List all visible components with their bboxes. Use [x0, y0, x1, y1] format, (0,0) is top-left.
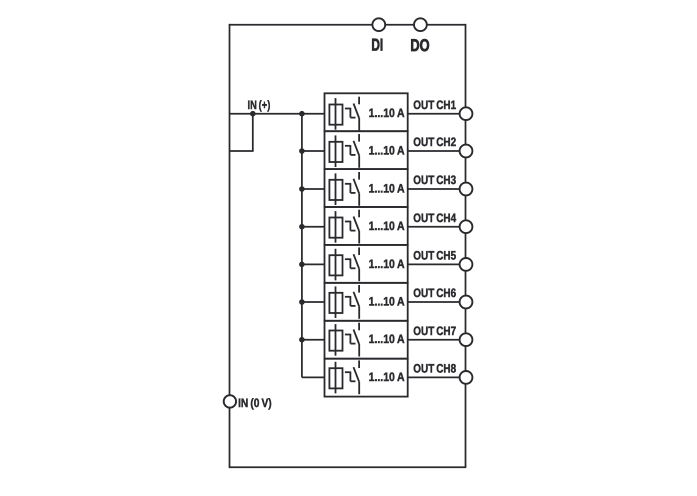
svg-text:1...10 A: 1...10 A — [369, 332, 405, 346]
breaker contact (switch with trip actuator), channel 4 — [345, 210, 359, 244]
node: IN (+) terminal label — [248, 98, 271, 112]
svg-text:IN (+): IN (+) — [248, 98, 271, 112]
node label OUT CH1 — [413, 98, 456, 112]
terminal OUT CH5 — [460, 258, 473, 271]
electronic circuit breaker channel 4 (box outline) — [325, 207, 408, 245]
wire: outer supply frame (bottom rail) — [229, 466, 467, 468]
terminal OUT CH7 — [460, 333, 473, 346]
wire: channel 1 output to OUT CH1 terminal — [408, 113, 466, 115]
node label DI — [371, 36, 383, 55]
junction: IN (+) strap node — [250, 111, 256, 117]
wire: parallel feed strap (horizontal back to left rail) — [230, 150, 254, 152]
terminal OUT CH4 — [460, 220, 473, 233]
node label OUT CH2 — [413, 135, 456, 149]
junction: bus node CH7 — [299, 337, 305, 343]
wire: channel 8 output to OUT CH8 terminal — [408, 376, 466, 378]
fuse symbol, channel 3 — [329, 173, 342, 205]
electronic circuit breaker channel 5 (box outline) — [325, 245, 408, 283]
node label IN (0 V) — [238, 396, 272, 410]
junction: bus node CH5 — [299, 262, 305, 268]
electronic circuit breaker channel 2 (box outline) — [325, 131, 408, 169]
svg-text:1...10 A: 1...10 A — [369, 257, 405, 271]
node label OUT CH8 — [413, 362, 456, 376]
wire: channel 2 output to OUT CH2 terminal — [408, 150, 466, 152]
wire: channel 6 output to OUT CH6 terminal — [408, 301, 466, 303]
svg-text:OUT CH7: OUT CH7 — [413, 324, 456, 338]
wire: parallel feed strap (vertical drop from IN (+) node) — [252, 114, 254, 151]
junction: bus node CH2 — [299, 148, 305, 154]
svg-text:IN (0 V): IN (0 V) — [238, 396, 272, 410]
breaker contact (switch with trip actuator), channel 5 — [345, 247, 359, 281]
value label 1...10 A, channel 2 — [369, 143, 405, 157]
fuse symbol, channel 2 — [329, 135, 342, 167]
svg-text:DI: DI — [371, 36, 383, 55]
wire: outer supply frame (right rail) — [465, 24, 467, 467]
wire: bus to channel 5 input — [302, 263, 325, 265]
fuse symbol, channel 7 — [329, 324, 342, 356]
wire: channel 7 output to OUT CH7 terminal — [408, 339, 466, 341]
terminal DI (diagnostic input) — [372, 18, 385, 31]
fuse symbol, channel 1 — [329, 98, 342, 130]
value label 1...10 A, channel 3 — [369, 181, 405, 195]
terminal DO (diagnostic output) — [414, 18, 427, 31]
svg-text:1...10 A: 1...10 A — [369, 181, 405, 195]
svg-text:OUT CH5: OUT CH5 — [413, 249, 456, 263]
fuse symbol, channel 4 — [329, 211, 342, 243]
wire: outer supply frame (top rail) — [230, 24, 466, 26]
breaker contact (switch with trip actuator), channel 2 — [345, 134, 359, 168]
svg-text:OUT CH2: OUT CH2 — [413, 135, 456, 149]
terminal OUT CH8 — [460, 371, 473, 384]
breaker contact (switch with trip actuator), channel 8 — [345, 360, 359, 394]
terminal OUT CH3 — [460, 183, 473, 196]
wire: IN (+) feed from left rail to channel bus — [230, 113, 325, 115]
node label OUT CH5 — [413, 249, 456, 263]
breaker contact (switch with trip actuator), channel 7 — [345, 323, 359, 357]
wire: bus to channel 3 input — [302, 188, 325, 190]
node label DO — [410, 36, 429, 55]
svg-text:OUT CH1: OUT CH1 — [413, 98, 456, 112]
value label 1...10 A, channel 6 — [369, 294, 405, 308]
junction: bus node CH3 — [299, 186, 305, 192]
svg-text:1...10 A: 1...10 A — [369, 106, 405, 120]
svg-text:1...10 A: 1...10 A — [369, 370, 405, 384]
terminal OUT CH6 — [460, 296, 473, 309]
svg-text:1...10 A: 1...10 A — [369, 219, 405, 233]
wire: channel 4 output to OUT CH4 terminal — [408, 226, 466, 228]
value label 1...10 A, channel 7 — [369, 332, 405, 346]
fuse symbol, channel 8 — [329, 362, 342, 394]
value label 1...10 A, channel 8 — [369, 370, 405, 384]
value label 1...10 A, channel 4 — [369, 219, 405, 233]
junction: bus node CH4 — [299, 224, 305, 230]
value label 1...10 A, channel 1 — [369, 106, 405, 120]
svg-text:OUT CH8: OUT CH8 — [413, 362, 456, 376]
terminal OUT CH2 — [460, 145, 473, 158]
breaker contact (switch with trip actuator), channel 6 — [345, 285, 359, 319]
terminal IN (0V) — [224, 395, 236, 407]
wire: bus to channel 8 input — [302, 376, 325, 378]
wire: bus to channel 7 input — [302, 339, 325, 341]
value label 1...10 A, channel 5 — [369, 257, 405, 271]
wire: bus to channel 4 input — [302, 226, 325, 228]
node label OUT CH6 — [413, 286, 456, 300]
svg-text:OUT CH4: OUT CH4 — [413, 211, 456, 225]
wire: bus to channel 6 input — [302, 301, 325, 303]
breaker contact (switch with trip actuator), channel 3 — [345, 172, 359, 206]
electronic circuit breaker channel 3 (box outline) — [325, 169, 408, 207]
fuse symbol, channel 6 — [329, 286, 342, 318]
wire: bus to channel 2 input — [302, 150, 325, 152]
svg-text:1...10 A: 1...10 A — [369, 294, 405, 308]
electronic circuit breaker channel 8 (box outline) — [325, 359, 408, 397]
wire: channel 3 output to OUT CH3 terminal — [408, 188, 466, 190]
node label OUT CH7 — [413, 324, 456, 338]
junction: bus node CH1 — [299, 111, 305, 117]
electronic circuit breaker channel 6 (box outline) — [325, 283, 408, 321]
electronic circuit breaker channel 7 (box outline) — [325, 321, 408, 359]
wire: channel 5 output to OUT CH5 terminal — [408, 263, 466, 265]
fuse symbol, channel 5 — [329, 249, 342, 281]
svg-text:1...10 A: 1...10 A — [369, 143, 405, 157]
electronic circuit breaker channel 1 (box outline) — [325, 93, 408, 131]
svg-text:OUT CH6: OUT CH6 — [413, 286, 456, 300]
wire: outer supply frame (left rail, 0V return) — [229, 24, 231, 467]
svg-text:OUT CH3: OUT CH3 — [413, 173, 456, 187]
node label OUT CH4 — [413, 211, 456, 225]
breaker contact (switch with trip actuator), channel 1 — [345, 97, 359, 131]
svg-text:DO: DO — [410, 36, 429, 55]
terminal OUT CH1 — [460, 107, 473, 120]
junction: bus node CH6 — [299, 299, 305, 305]
node label OUT CH3 — [413, 173, 456, 187]
wire: + distribution bus (vertical) — [301, 114, 303, 378]
